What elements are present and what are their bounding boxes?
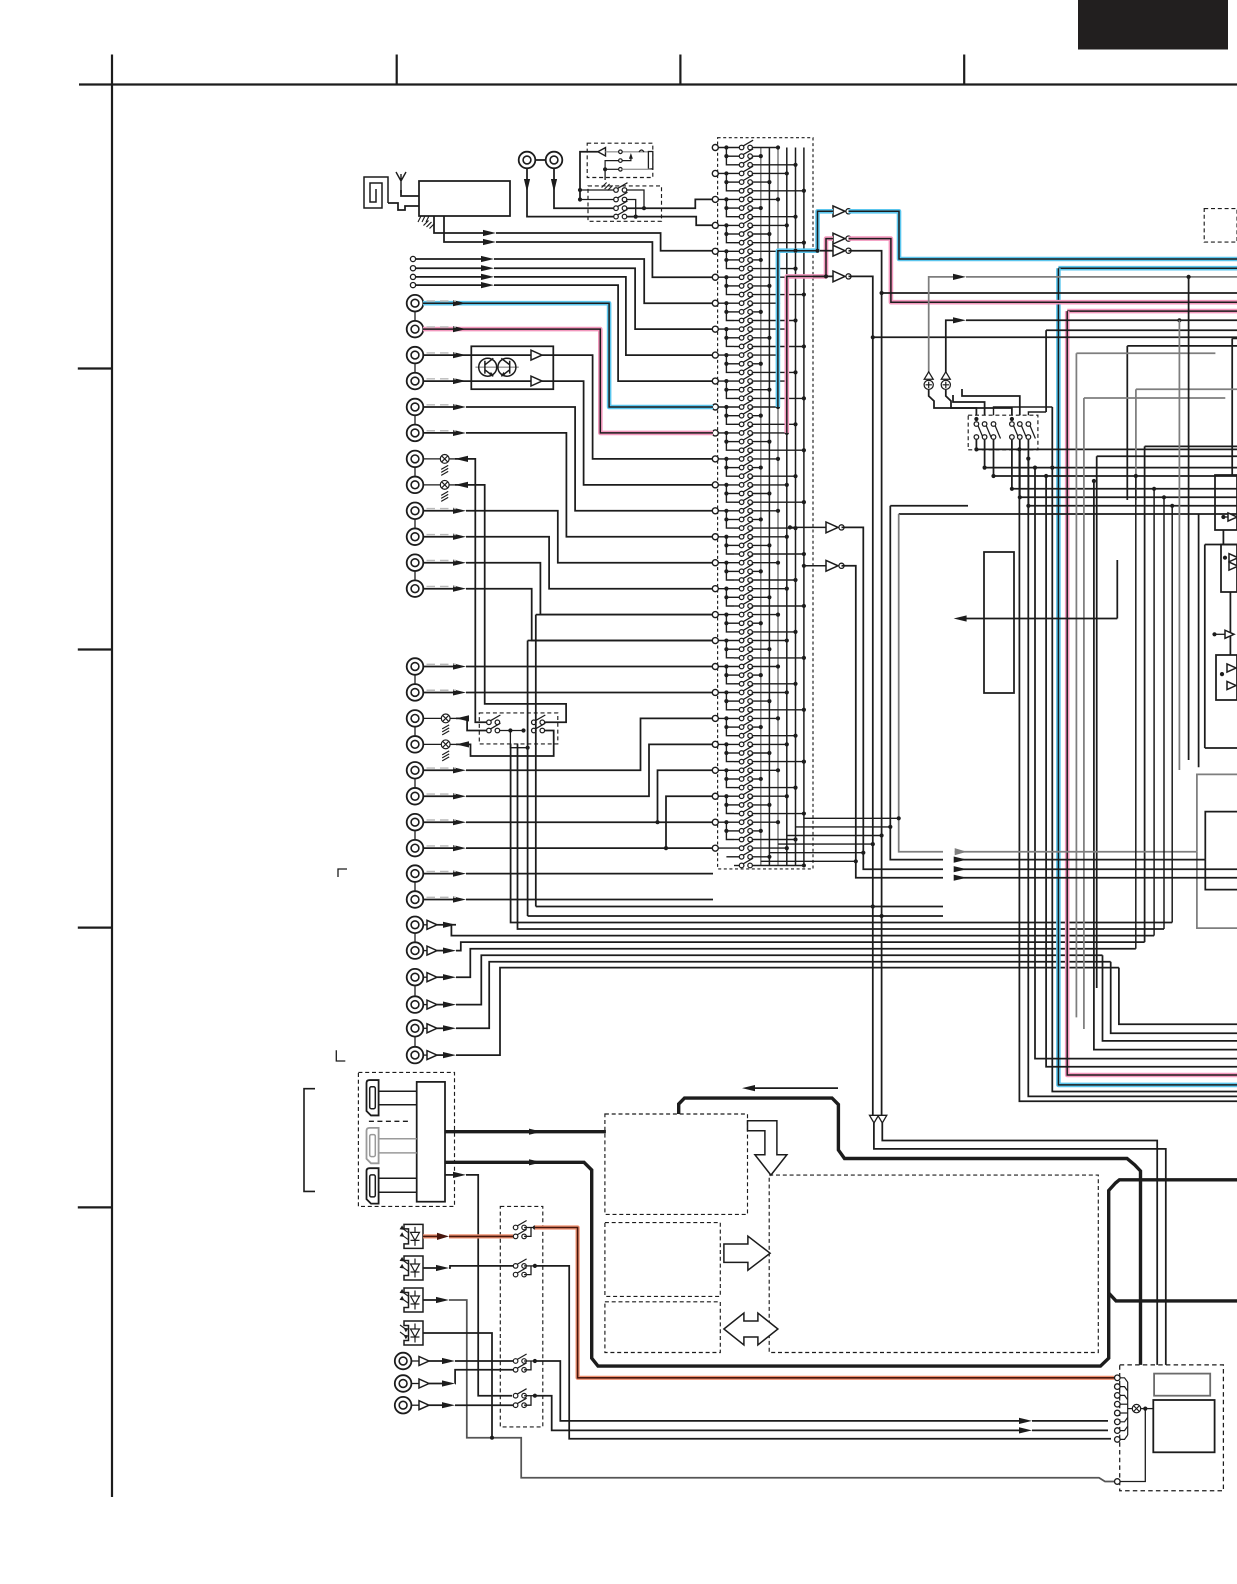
wire: [726, 700, 741, 702]
block arrow double: [724, 1313, 778, 1345]
wire row to bus: [753, 536, 787, 538]
switch matrix row 78: [739, 806, 753, 816]
wire: [524, 1265, 535, 1267]
selector input pin: [712, 845, 718, 851]
muting rec1: [440, 455, 449, 476]
bracket mark a: [338, 869, 347, 877]
wire bus v1046b: [1046, 476, 1237, 1067]
wire hdmi cec down: [466, 1175, 512, 1396]
wire phono L: [423, 354, 531, 356]
buffer U2c: [833, 245, 845, 256]
selector input pin: [712, 300, 718, 306]
ground tuner: [424, 221, 435, 229]
wire: [524, 1360, 535, 1362]
connector J IN 3: [407, 347, 424, 364]
arrowhead: [443, 922, 456, 928]
wire bundle x: [511, 744, 1173, 923]
wire selector exit: [761, 860, 856, 862]
connector J IN 6: [407, 425, 424, 442]
wire: [718, 614, 741, 616]
wire in: [423, 562, 454, 564]
wire in21: [423, 873, 454, 875]
wire v1145 long: [1144, 446, 1146, 942]
switch matrix row 23: [739, 331, 753, 341]
wire blue out right: [849, 211, 1237, 259]
wire: [718, 172, 741, 174]
wire: [718, 302, 741, 304]
wire: [734, 346, 741, 348]
connector J IN 1: [407, 295, 424, 312]
wire: [726, 570, 741, 572]
squiggle: [639, 150, 644, 152]
photocoupler PC2: [404, 1256, 423, 1280]
wire: [718, 484, 741, 486]
buffer out: [427, 973, 437, 982]
wire: [1128, 1408, 1133, 1410]
wire row to bus: [753, 449, 804, 451]
wire monitor bundle: [456, 968, 1119, 1056]
border tick left: [78, 1206, 112, 1208]
arrowhead: [456, 741, 469, 747]
switch matrix row 59: [739, 642, 753, 652]
wire: [726, 596, 741, 598]
wire row to bus: [753, 527, 796, 529]
wire row to bus: [753, 259, 761, 261]
rec out selector box: [479, 713, 558, 744]
contact tip: [619, 150, 623, 154]
arrowhead: [551, 179, 557, 192]
wire: [437, 1027, 448, 1029]
wire to selector b2: [627, 199, 713, 208]
wire: [718, 743, 741, 745]
wire: [524, 1395, 535, 1397]
wire to selector direct: [666, 847, 713, 849]
buffer ob1: [1229, 554, 1237, 562]
wire v1232: [1231, 338, 1233, 475]
switch dm: [1018, 422, 1027, 440]
wire sleeve tie: [605, 168, 619, 170]
buffer t1: [419, 1357, 429, 1366]
wire jack pair link: [414, 675, 416, 685]
wire: [734, 839, 741, 841]
wire box edge v1205: [1204, 545, 1206, 749]
arrowhead: [1019, 1418, 1032, 1424]
wire in: [423, 821, 454, 823]
wire rec out 2: [455, 485, 566, 722]
summing node R: [941, 372, 950, 380]
wire in13: [423, 666, 454, 668]
hdmi receiver block: [417, 1082, 445, 1202]
border tick left: [78, 926, 112, 928]
hdmi connector 1: [367, 1080, 379, 1115]
switch dm: [1026, 422, 1035, 440]
arrowhead: [954, 866, 967, 872]
connector J IN 22: [407, 891, 424, 908]
wire t1 to switch: [455, 1360, 513, 1362]
buffer U2b: [833, 233, 845, 244]
wire: [411, 1360, 419, 1362]
wire selector b18 feed: [536, 614, 713, 616]
wire rec out 1: [455, 459, 487, 722]
border tick top: [679, 55, 681, 85]
wire: [726, 804, 741, 806]
wire hdmi2 b: [379, 1152, 417, 1154]
wire fan 446: [1145, 445, 1237, 447]
wire: [734, 475, 741, 477]
wire dm feed2: [1028, 412, 1046, 415]
wire row to bus: [753, 735, 796, 737]
wire: [718, 432, 741, 434]
wire terminal to selector: [494, 285, 713, 381]
wire blue to buffer: [778, 211, 833, 407]
wire: [718, 847, 741, 849]
wire: [734, 397, 741, 399]
switch matrix row 15: [739, 261, 753, 271]
wire v1199: [1198, 514, 1200, 767]
arrowhead: [455, 456, 468, 462]
wire sum R up: [946, 320, 954, 377]
wire bus v1119: [1119, 968, 1237, 1025]
wire row to bus: [753, 605, 804, 607]
wire jack pair link: [414, 363, 416, 373]
wire fan 346: [1127, 345, 1237, 347]
wire: [718, 406, 741, 408]
wire v882 long: [882, 293, 943, 916]
wire hdmi1 b: [379, 1104, 417, 1106]
wire jack pair link: [414, 778, 416, 788]
wire dm out: [1020, 440, 1237, 498]
selector input pin: [712, 196, 718, 202]
wire row to bus: [753, 839, 796, 841]
hdmi connector 2: [367, 1128, 379, 1163]
arrowhead: [453, 404, 466, 410]
wire v899 gray: [899, 514, 943, 852]
switch matrix row 5: [739, 175, 753, 185]
wire: [449, 484, 455, 486]
wire thick branch right: [1109, 1293, 1237, 1301]
wire: [726, 441, 741, 443]
wire row to bus: [753, 320, 796, 322]
junction: [490, 1436, 494, 1440]
wire rec out a: [510, 731, 527, 748]
wire dm out: [994, 440, 1237, 476]
wire tuner out R: [444, 216, 488, 242]
wire row to bus: [753, 692, 787, 694]
wire row to bus: [753, 683, 796, 685]
selector input pin: [712, 508, 718, 514]
connector J IN 25: [407, 969, 424, 986]
junction: [1143, 1407, 1147, 1411]
wire tuner out L: [434, 216, 488, 233]
wire hdmi3 b: [379, 1191, 417, 1193]
wire v1136 gray: [1135, 389, 1137, 500]
wire ls out a: [874, 1123, 1166, 1365]
wire input fanout: [726, 199, 734, 216]
wire: [437, 1054, 448, 1056]
buffer phono L: [531, 350, 542, 360]
wire row to bus: [753, 389, 770, 391]
selector input pin: [712, 638, 718, 644]
buffer out: [427, 1024, 437, 1033]
wire: [726, 467, 741, 469]
wire jack pair link: [414, 415, 416, 425]
connector CD L: [519, 152, 536, 169]
wire input fanout: [726, 615, 734, 632]
switch matrix row 43: [739, 504, 753, 514]
wire ls out b: [882, 1123, 1157, 1365]
wire row to bus: [753, 717, 778, 719]
buffer od2: [1227, 681, 1236, 689]
switch matrix row 21: [739, 313, 753, 323]
wire: [423, 1004, 427, 1006]
wire dm out: [1028, 440, 1237, 506]
wire v890: [890, 506, 943, 860]
switch matrix row 41: [739, 486, 753, 496]
wire: [734, 216, 741, 218]
wire fan 398 gray: [1084, 397, 1225, 399]
terminal T4: [410, 283, 415, 288]
arrowhead: [453, 378, 466, 384]
wire row to bus: [753, 337, 770, 339]
wire pink bus down: [1067, 311, 1237, 1075]
wire phono L to selector: [542, 355, 713, 459]
wire black box bottom: [1205, 860, 1237, 890]
ground hatch tuner: [418, 216, 429, 222]
wire bus v1028: [1028, 459, 1237, 1097]
wire row to bus: [753, 147, 778, 149]
wire pink out right: [849, 239, 1237, 303]
wire t3 to switch: [455, 1404, 513, 1406]
switch matrix row 2: [739, 149, 753, 159]
arrowhead: [442, 1358, 455, 1364]
arrowhead: [954, 857, 967, 863]
wire v1230 link: [1229, 592, 1231, 655]
wire: [437, 924, 448, 926]
switch matrix row 27: [739, 365, 753, 375]
wire: [524, 1361, 531, 1370]
switch matrix row 63: [739, 677, 753, 687]
buffer ob2: [1229, 562, 1237, 570]
wire input fanout: [726, 459, 734, 476]
wire input fanout: [726, 667, 734, 684]
arrowhead gray: [955, 848, 967, 855]
wire row to bus: [753, 830, 761, 832]
arrowhead: [529, 1129, 542, 1135]
wire bus v1035: [1035, 468, 1237, 1059]
output amp box B: [1221, 545, 1237, 593]
photocoupler PC4: [404, 1321, 423, 1345]
terminal T3: [410, 274, 415, 279]
switch matrix row 58: [739, 633, 753, 643]
wire: [734, 683, 741, 685]
wire monitor bundle: [456, 942, 1145, 951]
wire: [726, 389, 741, 391]
wire dm feed: [994, 407, 1053, 415]
wire: [423, 950, 427, 952]
wire terminal to selector: [494, 277, 713, 355]
wire: [734, 371, 741, 373]
arrowhead: [443, 1002, 456, 1008]
wire: [718, 354, 741, 356]
wire sw in: [580, 199, 616, 201]
wire: [726, 674, 741, 676]
selector input pin: [712, 378, 718, 384]
wire: [718, 536, 741, 538]
buffer out: [427, 1000, 437, 1009]
wire t2 to switch: [455, 1370, 513, 1384]
wire: [450, 743, 456, 745]
wire in6 to selector: [466, 433, 713, 537]
wire to selector riser: [466, 744, 713, 796]
wire row to bus: [753, 519, 761, 521]
ic large: [1153, 1400, 1214, 1452]
wire row to bus: [753, 847, 787, 849]
selector input pin: [712, 715, 718, 721]
wire selector exit: [778, 843, 873, 845]
antenna coil L1: [364, 177, 388, 208]
wire: [450, 717, 456, 719]
selector input pin: [712, 534, 718, 540]
wire row to bus: [753, 441, 770, 443]
wire volume ctrl: [962, 618, 1117, 620]
wire stair left ext: [890, 505, 968, 507]
node: [872, 336, 874, 338]
wire U2d out: [849, 276, 1237, 337]
wire row to bus: [753, 224, 787, 226]
wire CD R down: [554, 168, 613, 208]
wire in: [423, 588, 454, 590]
wire dm out: [985, 440, 1237, 468]
wire input fanout: [726, 589, 734, 606]
wire ctrl3 long: [535, 1361, 1020, 1421]
wire row to bus: [753, 380, 787, 382]
wire blue bus down: [1058, 268, 1237, 1085]
wire hdmi audio thick loop: [445, 1162, 1237, 1366]
wire hdmi video thick: [445, 1130, 606, 1133]
wire input fanout: [726, 355, 734, 372]
junction: [578, 197, 582, 201]
arrowhead: [443, 948, 456, 954]
switch ctrl 3a: [513, 1354, 526, 1363]
wire ctrl2 long: [535, 1266, 1111, 1439]
selector input pin: [712, 222, 718, 228]
arrowhead: [481, 274, 494, 280]
wire: [726, 519, 741, 521]
switch matrix row 9: [739, 209, 753, 219]
selector input pin: [712, 248, 718, 254]
wire blue return top: [1058, 266, 1237, 271]
ic small: [1154, 1374, 1210, 1396]
wire: [726, 181, 741, 183]
wire terminal to selector: [494, 259, 713, 303]
tuner block U1: [419, 181, 510, 216]
wire input fanout: [726, 744, 734, 761]
arrowhead: [453, 534, 466, 540]
phono eq amp box: [471, 346, 553, 389]
connector pins: [1115, 1375, 1121, 1381]
wire jack pair link: [414, 726, 416, 736]
buffer out: [427, 920, 437, 929]
wire: [718, 821, 741, 823]
switch dm: [1010, 422, 1019, 440]
wire jack pair link: [414, 933, 416, 943]
wire opto4 feed: [423, 1333, 492, 1438]
junction: [578, 188, 582, 192]
wire selector exit: [787, 835, 882, 837]
wire sw in: [565, 207, 616, 209]
wire: [718, 640, 741, 642]
connector pin low: [1115, 1479, 1121, 1485]
junction: [634, 215, 638, 219]
buffer U2a: [833, 206, 845, 217]
wire row to bus: [753, 354, 778, 356]
wire monitor bundle: [451, 925, 1154, 936]
wire rec bus down2: [535, 615, 537, 907]
switch matrix row 26: [739, 356, 753, 366]
switch matrix row 38: [739, 460, 753, 470]
wire v1188: [1188, 277, 1190, 760]
selector input pin: [712, 793, 718, 799]
av connector box: [1120, 1365, 1224, 1491]
main dsp box: [769, 1175, 1098, 1352]
switch S1: [614, 183, 628, 193]
wire row to bus: [753, 821, 778, 823]
wire row to bus: [753, 544, 770, 546]
wire row to bus: [753, 787, 796, 789]
wire rec bundle b: [528, 915, 882, 917]
buffer out: [427, 1051, 437, 1060]
arrowhead: [442, 1380, 455, 1386]
wire ctrl4 long: [535, 1396, 1020, 1431]
wire in: [423, 847, 454, 849]
switch matrix row 77: [739, 798, 753, 808]
arrowhead: [453, 586, 466, 592]
wire: [726, 726, 741, 728]
wire row to bus: [753, 761, 804, 763]
wire feed 869: [955, 868, 1237, 870]
wire fan 456: [1097, 455, 1237, 457]
selector input pin: [712, 352, 718, 358]
wire row to bus: [753, 743, 787, 745]
wire stub: [1232, 337, 1237, 339]
switch matrix row 17: [739, 279, 753, 289]
connector J IN 8: [407, 477, 424, 494]
arrowhead: [453, 689, 466, 695]
switch ctrl 3b: [513, 1363, 526, 1372]
switch matrix row 76: [739, 789, 753, 799]
switch matrix row 67: [739, 711, 753, 721]
connector J IN 12: [407, 580, 424, 597]
wire row to bus: [753, 648, 770, 650]
buffer U4a: [826, 522, 838, 533]
wire pink to buffer: [787, 239, 833, 433]
wire: [718, 588, 741, 590]
wire input fanout: [726, 770, 734, 787]
selector input pin: [712, 819, 718, 825]
arrowhead: [442, 1402, 455, 1408]
switch rec D: [532, 723, 546, 733]
connector J IN 10: [407, 528, 424, 545]
wire box edge h545: [1205, 544, 1237, 546]
connector trigger 3: [395, 1397, 412, 1414]
wire v1084 gray: [1083, 398, 1085, 1029]
wire tuner R to selector: [496, 242, 713, 277]
selector input pin: [712, 145, 718, 151]
wire: [1223, 516, 1228, 518]
wire row to bus: [753, 467, 761, 469]
wire sum to switches2: [946, 390, 1012, 415]
hdmi connector 3: [367, 1168, 379, 1203]
